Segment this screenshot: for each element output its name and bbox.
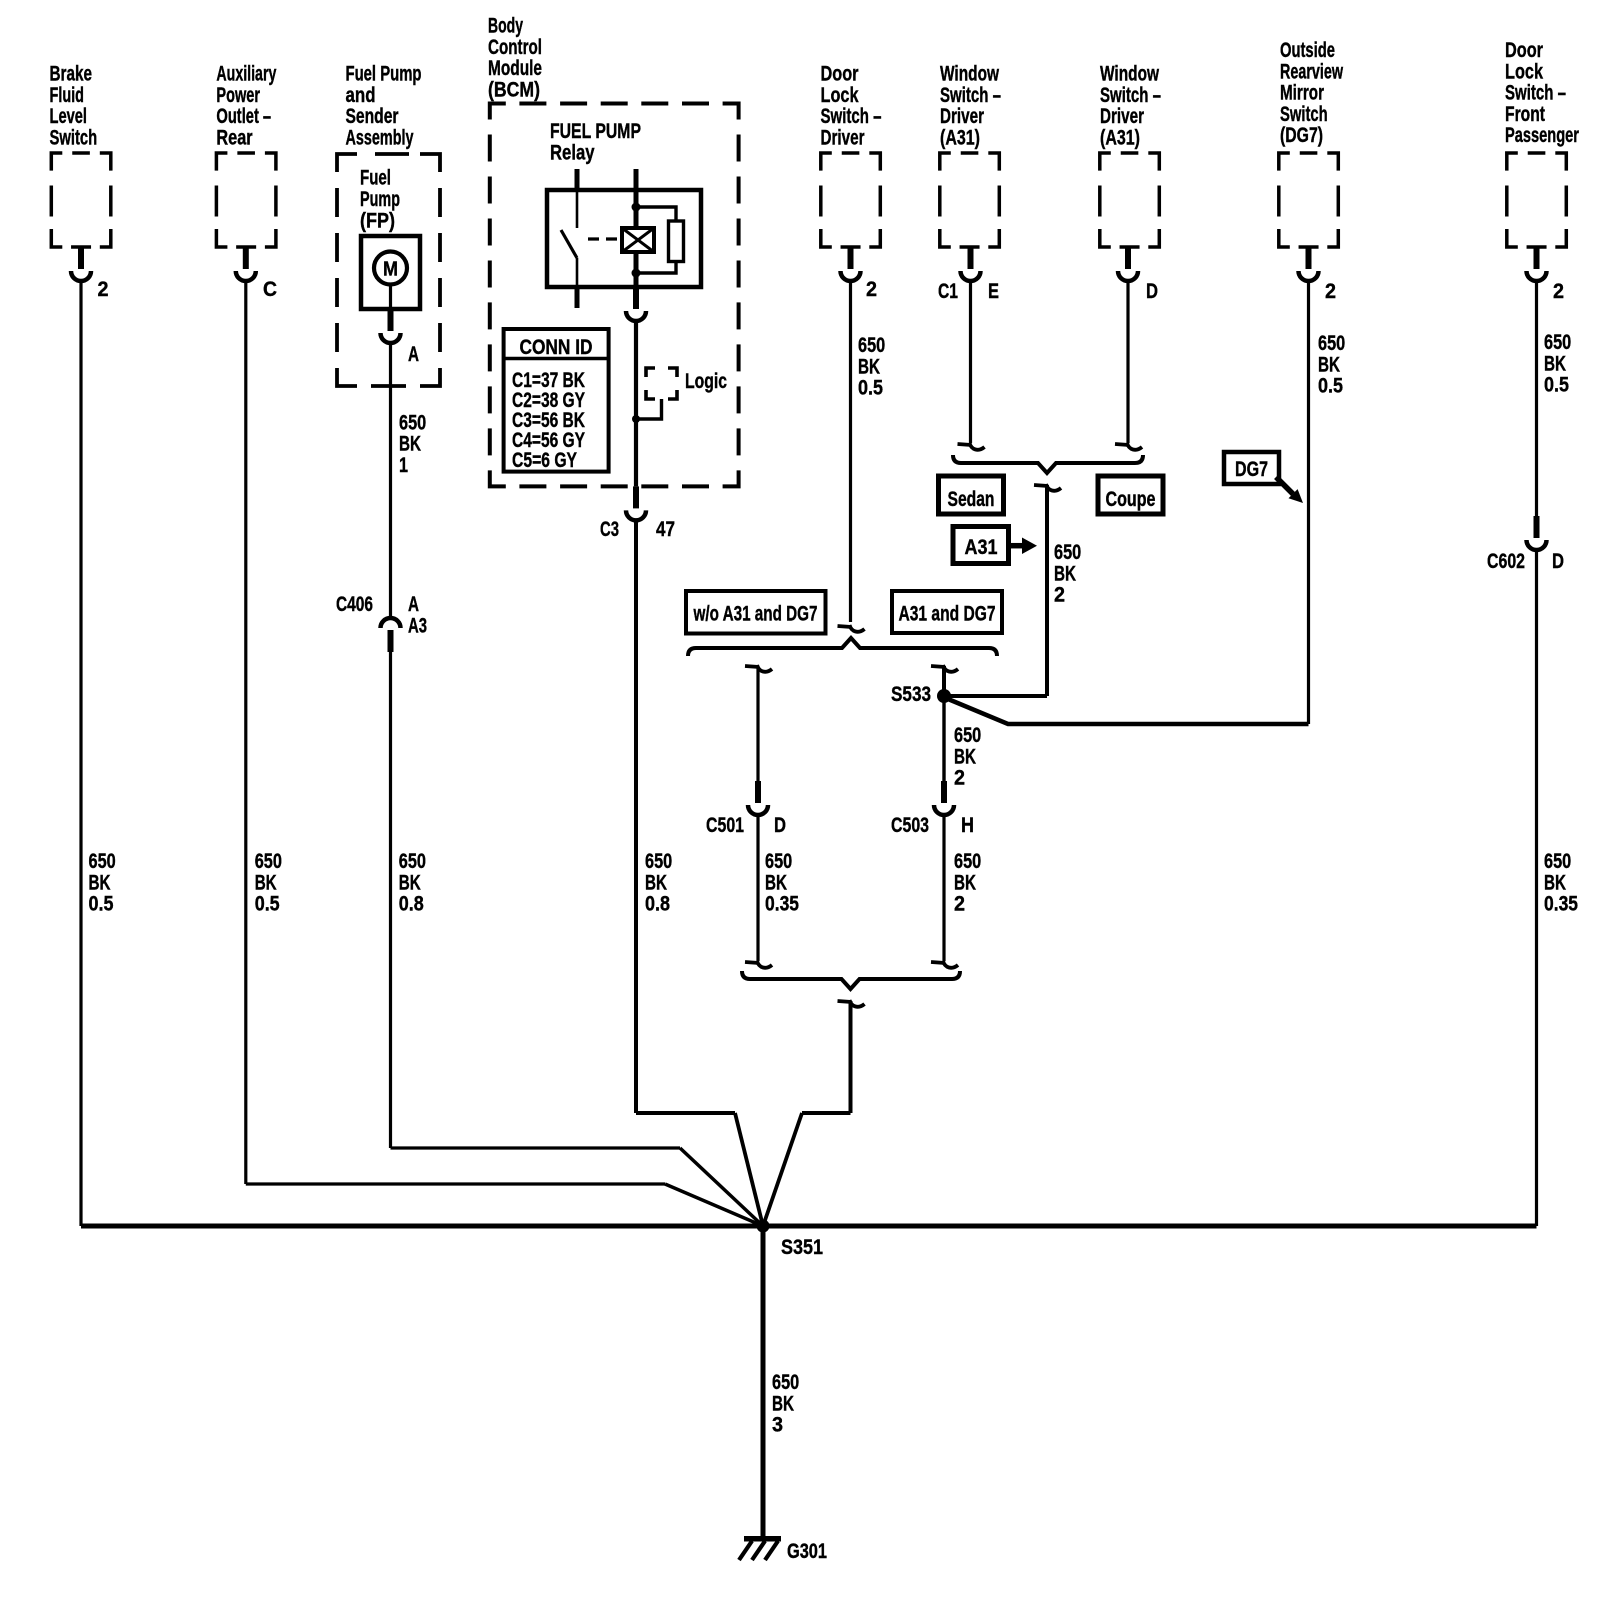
wire label 650 BK 0.5 xyxy=(1318,332,1345,398)
option box: A31 and DG7 xyxy=(892,591,1002,633)
svg-text:BK: BK xyxy=(255,871,277,894)
pin label 2 xyxy=(866,278,877,301)
connector box: Door Lock Switch - Front Passenger xyxy=(1507,153,1567,247)
svg-text:Switch: Switch xyxy=(50,127,98,150)
svg-text:47: 47 xyxy=(656,518,675,541)
connector box: Outside Rearview Mirror Switch xyxy=(1279,153,1339,247)
wire label 650 BK 0.5 xyxy=(1544,331,1571,397)
svg-text:2: 2 xyxy=(1054,584,1065,607)
svg-text:650: 650 xyxy=(255,850,282,873)
svg-text:Door: Door xyxy=(1505,39,1543,62)
svg-text:650: 650 xyxy=(858,334,885,357)
svg-text:Window: Window xyxy=(1100,63,1159,86)
wire: Door Lock Switch - Driver down xyxy=(849,281,852,622)
wire: option branch to C501 xyxy=(756,666,759,781)
in-line connector C501 xyxy=(748,781,768,815)
svg-text:(A31): (A31) xyxy=(1100,127,1140,150)
wire: C501 to bottom brace xyxy=(756,815,759,961)
svg-text:BK: BK xyxy=(765,871,787,894)
svg-text:FUEL PUMP: FUEL PUMP xyxy=(550,120,641,143)
svg-text:650: 650 xyxy=(645,850,672,873)
wire label 650 BK 2 xyxy=(1054,541,1081,607)
svg-text:Fuel Pump: Fuel Pump xyxy=(346,63,422,86)
svg-text:Window: Window xyxy=(940,63,999,86)
svg-text:Switch –: Switch – xyxy=(1505,82,1566,105)
brace splitting door lock wire into options xyxy=(688,638,997,656)
svg-text:Sender: Sender xyxy=(346,105,399,128)
svg-text:0.8: 0.8 xyxy=(399,893,424,916)
svg-text:Switch –: Switch – xyxy=(1100,84,1161,107)
connector box: Brake Fluid Level Switch xyxy=(51,153,111,247)
CONN ID rows xyxy=(512,369,585,472)
connector box: Window Switch - Driver (A31) xyxy=(940,153,1000,247)
svg-text:BK: BK xyxy=(1544,352,1566,375)
connector label C406 A A3 xyxy=(336,593,427,637)
svg-text:650: 650 xyxy=(399,411,426,434)
wire: S533 to mirror switch xyxy=(948,699,1309,724)
callout box: A31 with arrow xyxy=(953,527,1037,564)
svg-text:2: 2 xyxy=(954,767,965,790)
svg-text:C501: C501 xyxy=(706,814,744,837)
svg-text:Fluid: Fluid xyxy=(50,84,85,107)
svg-text:650: 650 xyxy=(1318,332,1345,355)
svg-text:H: H xyxy=(961,814,974,837)
svg-text:1: 1 xyxy=(399,454,408,477)
wire: fuel pump to C406 xyxy=(389,343,392,618)
svg-text:BK: BK xyxy=(1544,871,1566,894)
svg-text:Module: Module xyxy=(488,57,542,80)
svg-text:E: E xyxy=(988,280,999,303)
connector pin at Front Passenger switch xyxy=(1527,247,1547,281)
connector label C501 D xyxy=(706,814,786,837)
svg-text:0.5: 0.5 xyxy=(89,893,114,916)
svg-text:BK: BK xyxy=(858,355,880,378)
svg-text:2: 2 xyxy=(954,893,965,916)
svg-text:650: 650 xyxy=(1544,331,1571,354)
pin label D xyxy=(1146,280,1158,303)
connector pin A of fuel pump xyxy=(381,309,401,343)
svg-text:Sedan: Sedan xyxy=(948,488,995,511)
wire: window switch down to brace xyxy=(969,281,972,443)
wire label 650 BK 0.35 xyxy=(1544,850,1578,916)
svg-text:Level: Level xyxy=(50,105,88,128)
svg-text:BK: BK xyxy=(954,871,976,894)
wire continuation hook above brace xyxy=(838,625,865,632)
svg-text:0.5: 0.5 xyxy=(255,893,280,916)
pin label A xyxy=(408,343,419,366)
connector C3 pin 47 xyxy=(626,486,646,520)
wire label 650 BK 1 xyxy=(399,411,426,477)
wire label 650 BK 2 xyxy=(954,850,981,916)
wire: relay to logic junction xyxy=(634,321,638,486)
svg-text:Logic: Logic xyxy=(685,370,727,393)
svg-text:0.35: 0.35 xyxy=(1544,893,1578,916)
relay K: fuel pump relay box xyxy=(547,190,701,287)
component label: Body Control Module (BCM) xyxy=(488,15,542,102)
svg-text:C1: C1 xyxy=(938,280,958,303)
svg-text:Driver: Driver xyxy=(940,105,984,128)
junction dot coil bottom xyxy=(632,269,641,278)
hook to S533 branch xyxy=(931,665,958,672)
svg-text:CONN ID: CONN ID xyxy=(520,336,593,359)
wire: window switch down to brace xyxy=(1126,281,1129,443)
svg-text:C406: C406 xyxy=(336,593,373,616)
wire: C406 to S351 xyxy=(391,652,764,1226)
svg-text:D: D xyxy=(1146,280,1158,303)
wire: option branch to S533 xyxy=(942,666,946,696)
svg-text:w/o A31 and DG7: w/o A31 and DG7 xyxy=(693,603,818,626)
label: FUEL PUMP Relay xyxy=(550,120,641,164)
svg-text:BK: BK xyxy=(772,1392,794,1415)
svg-text:0.35: 0.35 xyxy=(765,893,799,916)
svg-text:Front: Front xyxy=(1505,103,1545,126)
connector box: Auxiliary Power Outlet - Rear xyxy=(216,153,276,247)
svg-text:650: 650 xyxy=(954,724,981,747)
svg-text:Rearview: Rearview xyxy=(1280,60,1343,83)
wire: window brace to S533 junction xyxy=(1045,485,1049,696)
svg-text:Driver: Driver xyxy=(1100,105,1144,128)
wire label 650 BK 0.5 xyxy=(858,334,885,400)
svg-text:2: 2 xyxy=(1325,280,1336,303)
pin label 2 xyxy=(1553,280,1564,303)
relay switch contact xyxy=(561,190,577,287)
fuel pump motor box xyxy=(361,236,420,309)
wire: Mirror Switch to S533 line xyxy=(1307,281,1310,724)
svg-text:Switch –: Switch – xyxy=(821,105,882,128)
CONN ID table xyxy=(504,329,609,472)
svg-text:C602: C602 xyxy=(1487,550,1525,573)
CONN ID title xyxy=(520,336,593,359)
svg-text:BK: BK xyxy=(1318,353,1340,376)
in-BCM connector below relay xyxy=(626,287,646,321)
svg-text:Relay: Relay xyxy=(550,141,595,164)
pin label 2 xyxy=(98,278,109,301)
svg-text:Mirror: Mirror xyxy=(1280,82,1324,105)
fuel pump motor M xyxy=(374,252,407,285)
in-line connector C406 xyxy=(381,618,401,652)
svg-text:650: 650 xyxy=(954,850,981,873)
wire label 650 BK 0.35 xyxy=(765,850,799,916)
connector pin at Brake Fluid Level Switch xyxy=(71,247,91,281)
svg-text:0.8: 0.8 xyxy=(645,893,670,916)
svg-text:2: 2 xyxy=(98,278,109,301)
brace joining window switch wires xyxy=(953,455,1143,473)
wire: Auxiliary Power Outlet to S351 xyxy=(246,281,763,1226)
relay actuating link (dashed) xyxy=(588,237,618,240)
svg-text:A31: A31 xyxy=(965,536,998,559)
option box: Coupe xyxy=(1098,476,1163,514)
svg-text:3: 3 xyxy=(772,1414,783,1437)
svg-text:D: D xyxy=(1552,550,1564,573)
svg-text:650: 650 xyxy=(89,850,116,873)
hook below bottom brace xyxy=(838,1000,865,1007)
wire label 650 BK 0.8 xyxy=(645,850,672,916)
wire: relay coil branch vertical xyxy=(634,169,639,308)
svg-text:M: M xyxy=(383,259,398,281)
brace joining C501 and C503 wires xyxy=(742,971,960,989)
svg-text:650: 650 xyxy=(765,850,792,873)
svg-text:2: 2 xyxy=(1553,280,1564,303)
callout box: DG7 with arrow xyxy=(1224,452,1303,503)
connector box: Door Lock Switch - Driver xyxy=(821,153,881,247)
hook at bottom of C501 wire xyxy=(745,961,772,968)
svg-text:C: C xyxy=(263,278,277,301)
svg-text:Assembly: Assembly xyxy=(346,127,414,150)
svg-text:BK: BK xyxy=(89,871,111,894)
svg-text:(BCM): (BCM) xyxy=(488,78,540,101)
wire: BCM C3 to S351 xyxy=(636,520,763,1226)
pin label C1 E xyxy=(938,280,999,303)
svg-text:0.5: 0.5 xyxy=(1544,374,1569,397)
connector label C3 47 xyxy=(600,518,675,541)
svg-text:A: A xyxy=(408,343,419,366)
svg-text:Switch: Switch xyxy=(1280,103,1328,126)
wire: C602 to S351 xyxy=(1535,550,1538,1226)
wire label 650 BK 3 xyxy=(772,1371,799,1437)
component label: Door Lock Switch - Front Passenger xyxy=(1505,39,1579,147)
wire label 650 BK 0.8 xyxy=(399,850,426,916)
svg-text:2: 2 xyxy=(866,278,877,301)
splice S351 xyxy=(757,1220,824,1260)
hook at bottom of window switch wire xyxy=(1115,443,1142,450)
component label: Window Switch - Driver (A31) xyxy=(1100,63,1161,150)
svg-text:Lock: Lock xyxy=(821,84,859,107)
svg-text:Outlet –: Outlet – xyxy=(216,105,271,128)
svg-text:D: D xyxy=(774,814,786,837)
wire: logic to main wire xyxy=(636,399,662,419)
hook to C501 branch xyxy=(745,665,772,672)
svg-text:BK: BK xyxy=(399,433,421,456)
svg-text:BK: BK xyxy=(645,871,667,894)
label: Logic xyxy=(685,370,727,393)
svg-text:(A31): (A31) xyxy=(940,127,980,150)
svg-text:G301: G301 xyxy=(787,1540,827,1563)
svg-text:Brake: Brake xyxy=(50,63,93,86)
label: Fuel Pump (FP) xyxy=(360,167,400,233)
relay pin stub top left xyxy=(575,169,580,190)
connector label C503 H xyxy=(891,814,974,837)
svg-text:Control: Control xyxy=(488,36,542,59)
main ground bus wire xyxy=(81,1224,1537,1229)
connector pin at Auxiliary Power Outlet xyxy=(236,247,256,281)
svg-text:Passenger: Passenger xyxy=(1505,124,1579,147)
wire label 650 BK 2 xyxy=(954,724,981,790)
svg-text:A: A xyxy=(408,593,419,616)
svg-text:and: and xyxy=(346,84,376,107)
svg-text:A31 and DG7: A31 and DG7 xyxy=(899,603,996,626)
svg-text:BK: BK xyxy=(954,745,976,768)
component box: Fuel Pump and Sender Assembly (dashed) xyxy=(337,154,440,386)
svg-text:650: 650 xyxy=(399,850,426,873)
svg-text:Body: Body xyxy=(488,15,523,38)
svg-text:Driver: Driver xyxy=(821,127,865,150)
svg-text:(DG7): (DG7) xyxy=(1280,124,1323,147)
wire: S533 down to C503 xyxy=(942,696,945,781)
wire: Front Passenger switch to C602 xyxy=(1535,281,1538,516)
svg-text:C5=6 GY: C5=6 GY xyxy=(512,449,577,472)
svg-text:Pump: Pump xyxy=(360,188,400,211)
svg-text:0.5: 0.5 xyxy=(858,377,883,400)
in-line connector C602 xyxy=(1527,516,1547,550)
svg-text:Fuel: Fuel xyxy=(360,167,391,190)
option box: w/o A31 and DG7 xyxy=(686,591,826,634)
hook at bottom of window switch wire xyxy=(958,443,985,450)
svg-text:Rear: Rear xyxy=(216,127,252,150)
relay pin stub bottom left xyxy=(575,287,580,308)
pin label C xyxy=(263,278,277,301)
component box: BCM (dashed) xyxy=(490,104,739,487)
svg-text:Switch –: Switch – xyxy=(940,84,1001,107)
wire: C503 to bottom brace xyxy=(942,815,945,961)
connector label C602 D xyxy=(1487,550,1564,573)
svg-text:S533: S533 xyxy=(891,683,931,706)
svg-text:C3: C3 xyxy=(600,518,619,541)
svg-text:Power: Power xyxy=(216,84,260,107)
wire: motor to pin A xyxy=(389,284,392,310)
svg-text:A3: A3 xyxy=(408,614,427,637)
svg-text:Outside: Outside xyxy=(1280,39,1335,62)
svg-text:S351: S351 xyxy=(781,1236,823,1259)
component label: Auxiliary Power Outlet - Rear xyxy=(216,63,276,150)
splice S533 xyxy=(891,683,951,706)
ground G301 xyxy=(739,1536,827,1563)
svg-text:650: 650 xyxy=(772,1371,799,1394)
component label: Fuel Pump and Sender Assembly xyxy=(346,63,422,150)
hook at bottom of C503 wire xyxy=(931,961,958,968)
svg-text:C503: C503 xyxy=(891,814,929,837)
connector box: Window Switch - Driver (A31) xyxy=(1100,153,1160,247)
svg-text:0.5: 0.5 xyxy=(1318,375,1343,398)
wire: S351 to ground xyxy=(761,1226,766,1538)
component label: Outside Rearview Mirror Switch (DG7) xyxy=(1280,39,1343,147)
pin label 2 xyxy=(1325,280,1336,303)
wire label 650 BK 0.5 xyxy=(89,850,116,916)
relay suppression resistor branch xyxy=(638,207,684,273)
svg-text:(FP): (FP) xyxy=(360,209,395,232)
connector pin at Door Lock Switch - Driver xyxy=(841,247,861,281)
svg-text:Lock: Lock xyxy=(1505,60,1543,83)
relay coil box with X xyxy=(622,228,654,252)
in-line connector C503 xyxy=(934,781,954,815)
svg-text:DG7: DG7 xyxy=(1235,458,1268,481)
svg-text:Door: Door xyxy=(821,63,859,86)
svg-text:650: 650 xyxy=(1054,541,1081,564)
connector pin at Window Switch xyxy=(1118,247,1138,281)
component label: Door Lock Switch - Driver xyxy=(821,63,882,150)
logic box (dashed corners) xyxy=(646,368,677,399)
component label: Brake Fluid Level Switch xyxy=(50,63,98,150)
junction dot coil top xyxy=(632,203,641,212)
option box: Sedan xyxy=(939,476,1004,514)
wire label 650 BK 0.5 xyxy=(255,850,282,916)
wire: S533 to window switch branch xyxy=(944,694,1047,698)
component label: Window Switch - Driver (A31) xyxy=(940,63,1001,150)
svg-text:Coupe: Coupe xyxy=(1106,488,1156,511)
wire: bottom brace to S351 xyxy=(763,1001,851,1226)
connector pin at Window Switch xyxy=(961,247,981,281)
svg-text:Auxiliary: Auxiliary xyxy=(216,63,276,86)
svg-text:650: 650 xyxy=(1544,850,1571,873)
wire: Brake Fluid Level Switch to S351 xyxy=(79,281,82,1226)
hook below window brace xyxy=(1034,484,1061,491)
junction dot logic xyxy=(632,415,640,423)
svg-text:BK: BK xyxy=(399,871,421,894)
svg-text:BK: BK xyxy=(1054,562,1076,585)
connector pin at Mirror Switch xyxy=(1299,247,1319,281)
